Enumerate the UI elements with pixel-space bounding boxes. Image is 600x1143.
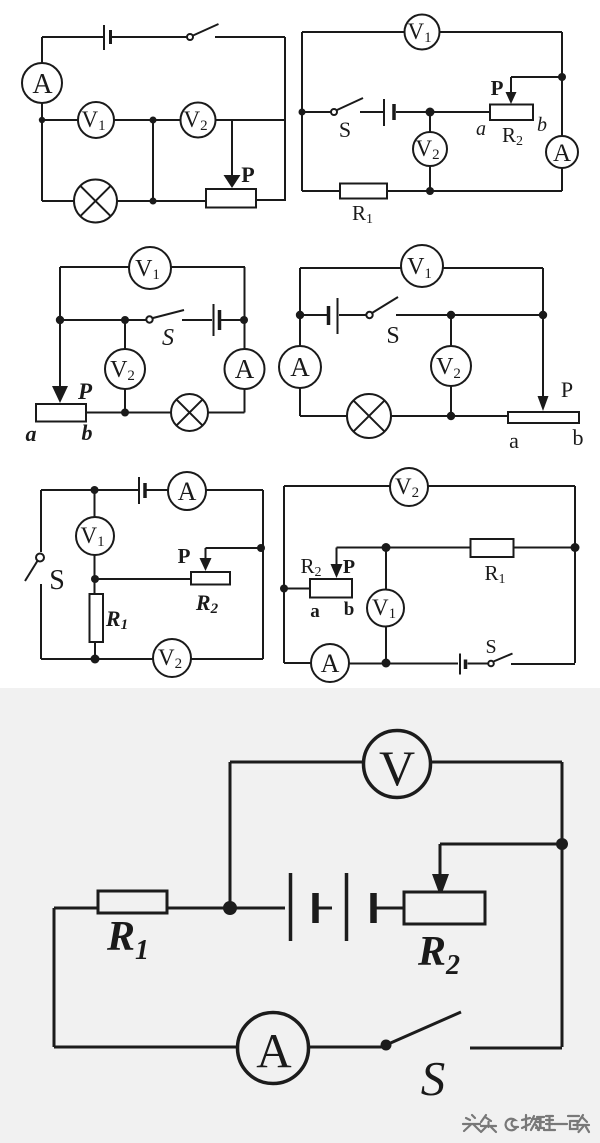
svg-text:S: S (49, 565, 65, 596)
svg-text:R2: R2 (502, 123, 523, 149)
resistor R1 body (c2) (340, 184, 387, 199)
switch S (c4) (366, 312, 372, 318)
svg-text:V: V (379, 740, 415, 796)
wire: c1 left edge upper (41, 37, 43, 63)
voltmeter V (c7) (364, 731, 431, 798)
wire: c1 left edge lower (41, 103, 43, 201)
wire: c5 left edge lower (40, 584, 42, 659)
battery cell (c4) (329, 298, 338, 334)
svg-text:b: b (82, 420, 93, 445)
battery pack (c7) (291, 873, 405, 941)
wire: c2 V2 branch (429, 112, 431, 191)
resistor R1 body (c7) (98, 891, 167, 913)
wire: c3 middle row (60, 310, 244, 320)
node: c4 left-mid junction (296, 311, 304, 319)
node: c7 main row junction (223, 901, 237, 915)
wire: c4 bottom row (300, 415, 508, 417)
resistor R1 body (c5) (90, 594, 104, 642)
wire: c6 V1 branch (385, 548, 387, 664)
ammeter A (c6) (311, 644, 349, 682)
svg-text:P: P (178, 544, 191, 568)
wire: c1 top edge mid segment (112, 36, 187, 38)
switch S lever (c7) (386, 1012, 461, 1045)
svg-text:R2: R2 (300, 554, 321, 580)
wiper arm wire (c7) (432, 844, 562, 897)
battery cell (c5) (139, 477, 145, 504)
node: c5 mid junction (91, 575, 99, 583)
wiper arrow onto rheostat (c3) (52, 320, 68, 403)
lamp (74, 180, 117, 223)
svg-text:A: A (321, 649, 340, 678)
wiper arrow onto R2 (c2) (506, 77, 563, 104)
node: c3 right-mid junction (240, 316, 248, 324)
wire: c1 bottom edge segments (42, 200, 285, 201)
wire: c1 vertical branch (152, 120, 154, 201)
wire: c3 V2 branch (124, 320, 126, 413)
svg-text:S: S (162, 325, 174, 351)
wire: c5 middle row to R2 (95, 578, 191, 580)
svg-text:P: P (77, 379, 93, 404)
node: c4 V2 top junction (447, 311, 455, 319)
svg-text:P: P (491, 76, 504, 100)
battery cell (c3) (214, 304, 220, 336)
node: c6 right junction (571, 543, 580, 552)
wiper arrow onto R2 (c5) (200, 548, 262, 571)
voltmeter V1 (78, 102, 114, 138)
wire: c3 right edge (244, 267, 246, 413)
node: c6 left junction (280, 585, 288, 593)
wire: c5 below R1 (94, 642, 96, 659)
wire: c2 middle row left (302, 111, 331, 113)
wire: c7 main row left (54, 907, 98, 910)
background lower image panel (0, 688, 600, 1143)
wire: c7 left upper vertical (229, 762, 232, 908)
node: c3 V2 bottom junction (121, 409, 129, 417)
wire: c5 left edge upper (40, 490, 42, 552)
node: c1 junction mid-line (150, 117, 157, 124)
svg-text:A: A (235, 354, 255, 384)
wire: c4 V2 branch (450, 315, 452, 416)
wire: c1 top edge left segment (42, 36, 103, 38)
wire: c2 bottom edge (302, 190, 562, 192)
ammeter A (c3) (225, 349, 265, 389)
voltmeter V2 (c4) (431, 346, 471, 386)
node: c7 wiper junction on right edge (556, 838, 568, 850)
svg-text:S: S (485, 636, 496, 658)
svg-text:S: S (339, 117, 351, 142)
voltmeter V1 (c6) (367, 590, 404, 627)
svg-text:P: P (343, 556, 355, 578)
node: c3 V2 top junction (121, 316, 129, 324)
svg-text:S: S (386, 323, 399, 349)
svg-text:b: b (537, 114, 547, 136)
svg-text:A: A (553, 140, 571, 167)
rheostat R2 body (c6) (310, 579, 352, 598)
node: c3 left-mid junction (56, 316, 64, 324)
svg-text:a: a (310, 601, 320, 622)
svg-text:b: b (344, 599, 355, 620)
wire: c4 right edge (542, 268, 544, 396)
svg-text:P: P (561, 377, 573, 402)
svg-text:A: A (256, 1023, 292, 1078)
node: c4 V2 bottom junction (447, 412, 455, 420)
wire: c5 bottom edge (41, 658, 263, 660)
rheostat R2 body (c5) (191, 572, 230, 585)
voltmeter V2 (c5) (153, 639, 191, 677)
wire: c7 left lower vertical (53, 908, 56, 1047)
watermark 头条@物理一百分 (463, 1115, 589, 1132)
wire: c3 bottom row (86, 412, 245, 414)
node: c2 V2 bottom junction (426, 187, 434, 195)
rheostat R2 body (c7) (404, 892, 485, 924)
ammeter A (c4) (279, 346, 321, 388)
wire: c6 right edge (574, 486, 576, 663)
rheostat R2 body (c2) (490, 105, 533, 121)
wire: c7 right vertical (561, 762, 564, 1047)
voltmeter V2 (c6) (390, 468, 428, 506)
wire: c1 middle line (42, 119, 285, 121)
rheostat body (c3) (36, 404, 86, 422)
wire: c1 top edge right segment (215, 36, 285, 38)
lamp (c4) (347, 394, 391, 438)
svg-text:P: P (241, 162, 254, 187)
svg-text:A: A (178, 477, 197, 506)
wiper arrow onto rheostat P (224, 120, 241, 188)
wire: c5 V1 branch (94, 490, 96, 594)
svg-text:R1: R1 (105, 606, 128, 633)
switch S (c3) (146, 316, 152, 322)
wire: c7 top edge (230, 761, 562, 764)
switch S (c2) (331, 98, 363, 115)
svg-text:R1: R1 (352, 201, 373, 227)
node: c5 top junction (91, 486, 99, 494)
wire: c1 right edge (284, 37, 286, 201)
wire: c6 row2 (386, 547, 575, 549)
voltmeter V2 (c3) (105, 349, 145, 389)
wiper arrow onto rheostat (c4) (538, 396, 549, 411)
voltmeter V2 (181, 103, 216, 138)
battery cell (104, 25, 111, 50)
svg-text:a: a (26, 421, 37, 446)
node: c1 junction bottom (150, 198, 157, 205)
voltmeter V1 (c5) (76, 517, 114, 555)
switch S (c6) (488, 661, 494, 667)
wire: c2 middle row to R2 (396, 111, 490, 113)
wire: c4 top edge (300, 267, 543, 269)
rheostat P body (206, 189, 256, 208)
wire: c7 main row R1 to node (167, 907, 285, 910)
wire: c6 bottom row (284, 654, 575, 665)
wiper arm wire (c6) (331, 548, 387, 579)
node: c1 junction left-mid (39, 117, 45, 123)
wire: c4 left edge (299, 268, 301, 416)
svg-text:a: a (476, 118, 486, 140)
wire: c6 left edge (283, 486, 285, 663)
svg-text:b: b (573, 425, 584, 450)
node: c6 wiper junction (382, 543, 391, 552)
node: c2 wiper junction on right edge (558, 73, 566, 81)
node: c7 switch pivot (381, 1040, 392, 1051)
svg-text:S: S (421, 1051, 446, 1106)
wire: c2 top edge (302, 31, 562, 33)
svg-text:A: A (32, 69, 53, 100)
node: c5 bottom junction (91, 655, 100, 664)
wire: c2 left edge (301, 32, 303, 191)
switch S (open) (187, 24, 219, 40)
ammeter A (c2) (546, 136, 578, 168)
switch S (c5) (25, 554, 44, 582)
voltmeter V1 (c4) (401, 245, 443, 287)
svg-text:a: a (509, 428, 519, 453)
wire: c2 middle row to battery (360, 111, 383, 113)
lamp (c3) (171, 394, 208, 431)
ammeter A (c7) (238, 1013, 309, 1084)
voltmeter V1 (c2) (405, 15, 440, 50)
wire: c6 top edge (284, 485, 575, 487)
svg-text:A: A (290, 352, 310, 382)
voltmeter V1 (c3) (129, 247, 171, 289)
wire: c5 top edge (41, 489, 263, 491)
battery cell (c2) (384, 99, 394, 126)
ammeter A (c5) (168, 472, 206, 510)
node: c4 right-mid junction (539, 311, 547, 319)
battery cell (c6) (460, 654, 466, 675)
voltmeter V2 (c2) (413, 132, 447, 166)
svg-text:R2: R2 (195, 590, 219, 617)
wire: c7 bottom row (54, 1047, 562, 1048)
ammeter A (22, 63, 62, 103)
wire: c6 R2 to left edge (284, 588, 310, 590)
wire: c3 top edge (60, 266, 245, 268)
node: c2 left-mid junction (299, 109, 306, 116)
node: c2 V2 top junction (426, 108, 435, 117)
wire: c3 left edge (59, 267, 61, 320)
node: c6 bottom junction (382, 659, 391, 668)
wire: c5 right edge (262, 490, 264, 659)
svg-text:R1: R1 (484, 561, 505, 587)
wire: c2 right edge (561, 32, 563, 191)
resistor R1 body (c6) (471, 539, 514, 557)
node: c5 wiper junction (257, 544, 265, 552)
rheostat body (c4) (508, 412, 579, 423)
wire: c4 middle row (300, 297, 543, 315)
